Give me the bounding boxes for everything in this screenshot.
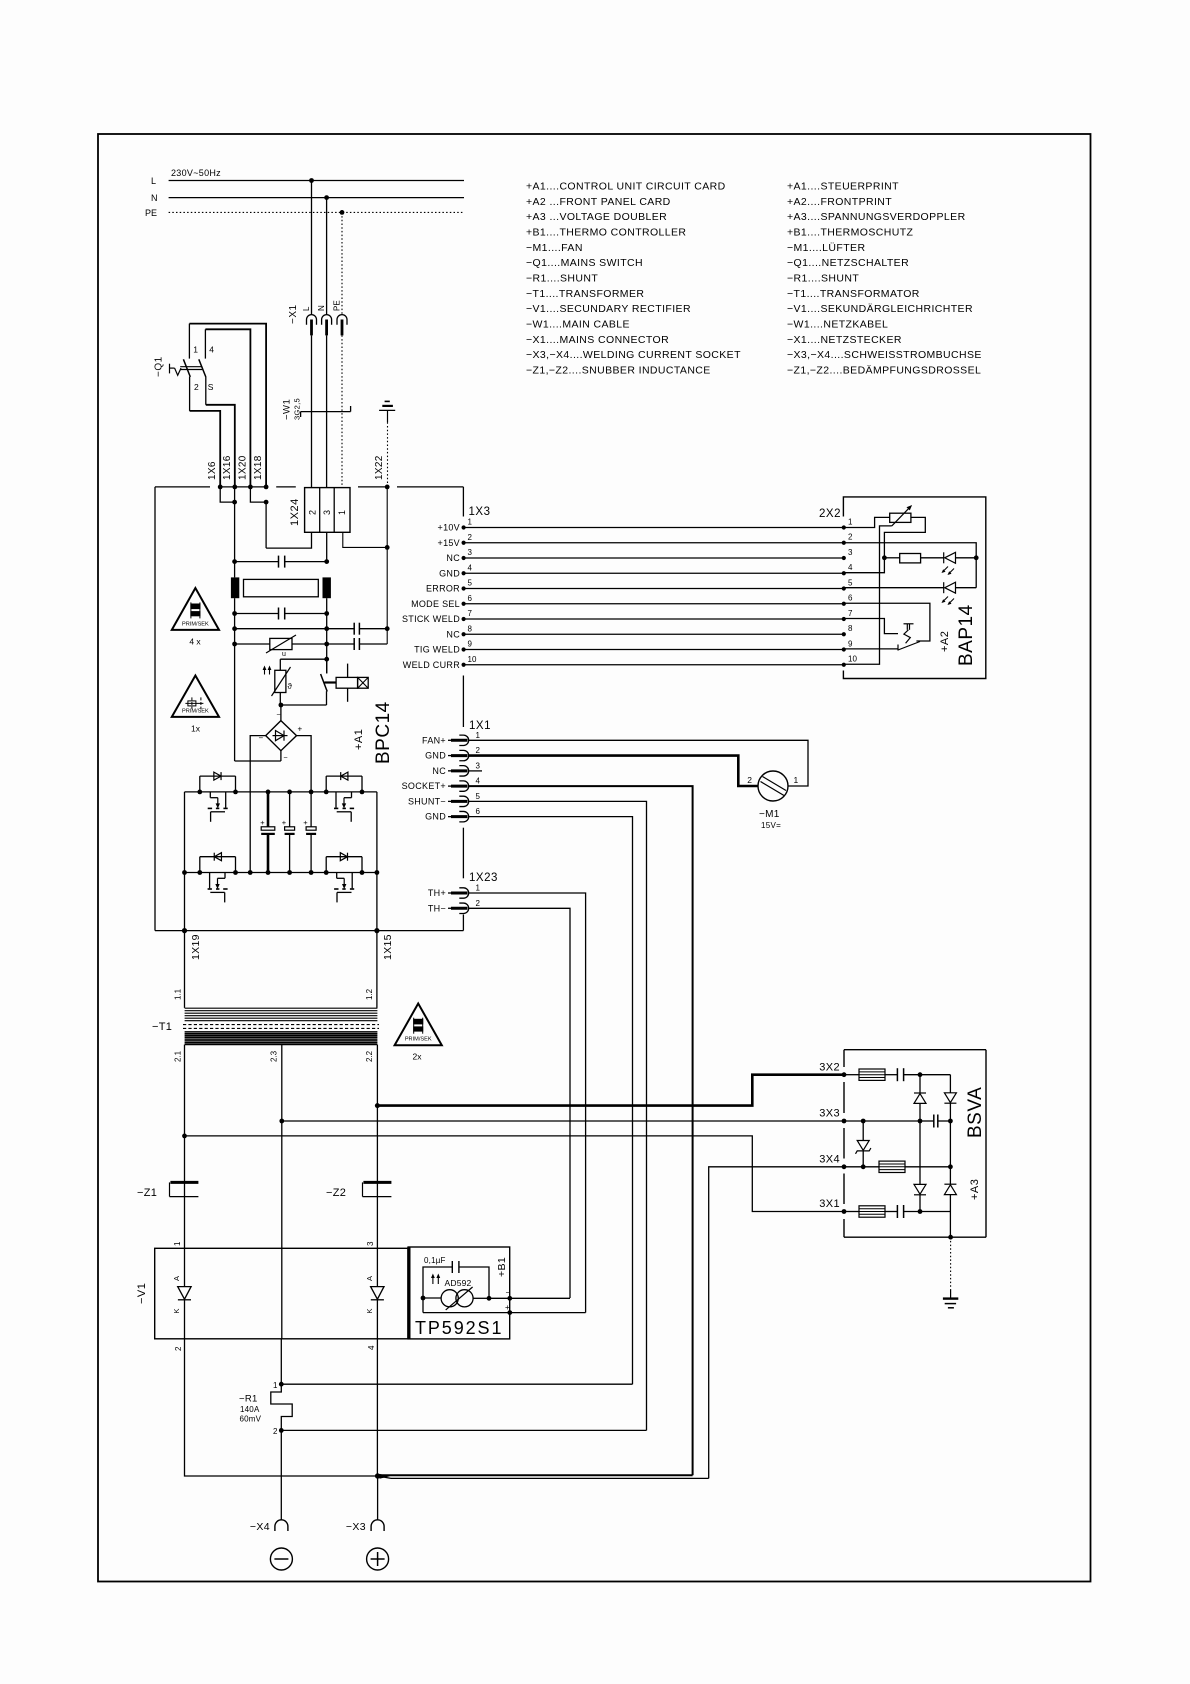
1X3 pin 1 (+10V) bbox=[462, 525, 466, 529]
diode V1b bbox=[376, 1248, 378, 1286]
capacitor Y-cap 2 (to PE) bbox=[327, 643, 355, 645]
svg-text:−Z2: −Z2 bbox=[326, 1187, 346, 1199]
wire B1 plus to TH+ bbox=[510, 1312, 586, 1314]
svg-text:−: − bbox=[259, 734, 264, 743]
wire 1X24.3 down (N filter column) bbox=[326, 532, 328, 561]
Q1 mechanical link (double bar) bbox=[180, 366, 202, 368]
1X3 pin 5 (ERROR) bbox=[462, 586, 466, 590]
svg-text:−M1: −M1 bbox=[759, 809, 780, 820]
wire Q1.1 to 1X18 bbox=[189, 324, 266, 487]
wire 2X2.1 to potentiometer bbox=[844, 517, 890, 527]
connector 1X6 bbox=[218, 485, 223, 490]
wire V1 minus leg to X4 bbox=[280, 1430, 282, 1519]
2X2 pin 10 bbox=[842, 663, 846, 667]
wire bridge plus to positive rail bbox=[297, 736, 312, 792]
svg-text:1x: 1x bbox=[191, 723, 201, 733]
svg-text:1X24: 1X24 bbox=[289, 498, 301, 526]
wire 1X3.7 to 2X2.7 bbox=[464, 618, 844, 620]
svg-text:1: 1 bbox=[173, 1241, 182, 1246]
svg-text:1: 1 bbox=[848, 517, 853, 526]
wire SHUNT- (1X1.5) down to R1.2 bbox=[469, 801, 647, 1430]
svg-text:1X22: 1X22 bbox=[374, 455, 385, 480]
inductor (3X2 branch) bbox=[844, 1074, 859, 1076]
LED 2 bbox=[844, 587, 944, 589]
svg-text:3: 3 bbox=[468, 548, 473, 557]
svg-text:0,1µF: 0,1µF bbox=[424, 1256, 446, 1265]
1X3 pin 10 (WELD CURR) bbox=[462, 663, 466, 667]
svg-text:AD592: AD592 bbox=[445, 1278, 472, 1288]
B1 plus output pin bbox=[422, 1298, 424, 1313]
wire TH- (1X23.2) down to B1 minus bbox=[469, 908, 570, 1298]
svg-text:4: 4 bbox=[367, 1345, 376, 1350]
wire 1X3.6 to 2X2.6 bbox=[464, 603, 844, 605]
svg-text:−X1....NETZSTECKER: −X1....NETZSTECKER bbox=[787, 334, 902, 346]
2X2 pin 4 bbox=[842, 571, 846, 575]
Q1 pole A contact bbox=[188, 324, 190, 359]
svg-text:2: 2 bbox=[273, 1427, 278, 1436]
diode (lower left, doubler) bbox=[914, 1184, 926, 1194]
varistor u bbox=[232, 642, 237, 647]
wire 1X1.1 to fan pin1 bbox=[469, 740, 808, 786]
svg-text:N: N bbox=[151, 193, 158, 203]
svg-text:−X3,−X4....WELDING CURRENT SOC: −X3,−X4....WELDING CURRENT SOCKET bbox=[526, 349, 741, 361]
svg-text:9: 9 bbox=[468, 640, 473, 649]
transistor Q (bottom-right MOSFET + diode) bbox=[325, 857, 327, 873]
svg-text:BSVA: BSVA bbox=[965, 1087, 986, 1138]
svg-text:2.1: 2.1 bbox=[174, 1050, 183, 1062]
wire V1 plus bus bbox=[185, 1339, 378, 1476]
svg-text:2: 2 bbox=[476, 746, 481, 755]
wire left leg to T1 pin 1.1 (via 1X19) bbox=[184, 792, 186, 1008]
svg-text:SOCKET+: SOCKET+ bbox=[402, 781, 446, 791]
svg-text:1X18: 1X18 bbox=[253, 455, 264, 480]
svg-text:+A3 ...VOLTAGE DOUBLER: +A3 ...VOLTAGE DOUBLER bbox=[526, 211, 667, 223]
svg-text:4: 4 bbox=[209, 345, 214, 355]
wire 1X24.2 to 1X18 column bbox=[266, 532, 311, 548]
svg-text:+A2 ...FRONT PANEL CARD: +A2 ...FRONT PANEL CARD bbox=[526, 196, 671, 208]
wire 1X24.1 to PE node bbox=[343, 532, 387, 547]
svg-text:−W1: −W1 bbox=[282, 399, 293, 420]
node 2.3 to 3X3 bbox=[279, 1119, 284, 1124]
svg-text:GND: GND bbox=[439, 568, 460, 578]
1X3 pin 2 (+15V) bbox=[462, 541, 466, 545]
svg-text:BAP14: BAP14 bbox=[956, 604, 977, 666]
svg-text:6: 6 bbox=[848, 594, 853, 603]
svg-text:2: 2 bbox=[174, 1346, 183, 1351]
svg-text:−V1....SECUNDARY RECTIFIER: −V1....SECUNDARY RECTIFIER bbox=[526, 303, 691, 315]
svg-text:3X3: 3X3 bbox=[819, 1108, 840, 1120]
diode (upper left, doubler) bbox=[919, 1075, 921, 1093]
connector 3X4 bbox=[842, 1164, 847, 1169]
transistor Q (top-left MOSFET + diode) bbox=[199, 776, 201, 792]
node 2.2 to 3X2 (thick) bbox=[375, 1103, 380, 1108]
svg-text:−M1....FAN: −M1....FAN bbox=[526, 242, 583, 254]
svg-text:NC: NC bbox=[432, 766, 446, 776]
wire 3X4 row bbox=[861, 1164, 866, 1169]
wire 1X20 join 1X18 bbox=[250, 487, 266, 502]
svg-text:4: 4 bbox=[848, 563, 853, 572]
svg-text:+A1....CONTROL UNIT CIRCUIT CA: +A1....CONTROL UNIT CIRCUIT CARD bbox=[526, 181, 726, 193]
wire negative rail bbox=[185, 872, 377, 874]
svg-text:60mV: 60mV bbox=[240, 1414, 262, 1423]
node 2.1 to 3X1 bbox=[182, 1134, 187, 1139]
svg-text:STICK WELD: STICK WELD bbox=[402, 614, 460, 624]
svg-text:1X19: 1X19 bbox=[190, 934, 202, 960]
wire 1X3.10 to 2X2.10 bbox=[464, 664, 844, 666]
svg-text:−Q1....NETZSCHALTER: −Q1....NETZSCHALTER bbox=[787, 257, 909, 269]
connector 1X16 bbox=[232, 485, 237, 490]
wire R1.2 to SHUNT- line bbox=[281, 1429, 646, 1431]
wire L drop to X1 bbox=[309, 178, 314, 183]
svg-text:−: − bbox=[506, 1288, 511, 1297]
svg-text:L: L bbox=[302, 306, 311, 311]
LED2 light arrows bbox=[943, 597, 948, 602]
svg-text:+: + bbox=[303, 818, 308, 827]
warning triangle PRIM/SEK 4x bbox=[172, 588, 219, 630]
svg-text:TIG WELD: TIG WELD bbox=[414, 645, 460, 655]
svg-text:1X20: 1X20 bbox=[238, 455, 249, 480]
svg-text:−V1....SEKUNDÄRGLEICHRICHTER: −V1....SEKUNDÄRGLEICHRICHTER bbox=[787, 303, 973, 315]
svg-text:−W1....MAIN CABLE: −W1....MAIN CABLE bbox=[526, 319, 630, 331]
svg-text:+10V: +10V bbox=[438, 523, 460, 533]
svg-text:−X3: −X3 bbox=[346, 1521, 366, 1533]
svg-text:5: 5 bbox=[476, 792, 481, 801]
svg-text:15V=: 15V= bbox=[761, 821, 781, 830]
wire T1 2.1 down bbox=[184, 1045, 186, 1249]
transistor Q (top-right MOSFET + diode) bbox=[325, 776, 327, 792]
wire B1 minus to TH- bbox=[510, 1297, 570, 1299]
shunt R1 140A 60mV bbox=[280, 1339, 282, 1384]
svg-text:+A2: +A2 bbox=[939, 631, 951, 652]
svg-text:K: K bbox=[172, 1308, 181, 1313]
svg-text:+A1: +A1 bbox=[353, 729, 365, 750]
svg-text:10: 10 bbox=[468, 655, 477, 664]
svg-text:7: 7 bbox=[848, 609, 853, 618]
wire T1 2.3 down (center tap) bbox=[281, 1045, 283, 1249]
1X3 pin 4 (GND) bbox=[462, 571, 466, 575]
fan M1 bbox=[758, 771, 788, 801]
Q1 thermal trip element bbox=[169, 364, 171, 374]
svg-text:WELD CURR: WELD CURR bbox=[403, 660, 460, 670]
svg-text:2: 2 bbox=[194, 382, 199, 392]
2X2 pin 5 bbox=[842, 586, 846, 590]
svg-text:+15V: +15V bbox=[438, 538, 460, 548]
relay coil K1 bbox=[324, 681, 336, 683]
connector 3X2 bbox=[842, 1072, 847, 1077]
svg-text:A: A bbox=[172, 1276, 181, 1281]
svg-text:1X1: 1X1 bbox=[469, 720, 491, 732]
wire PE drop to X1 (dotted) bbox=[340, 210, 345, 215]
wire T1 2.2 down bbox=[376, 1045, 378, 1249]
svg-text:1: 1 bbox=[468, 518, 473, 527]
svg-text:TP592S1: TP592S1 bbox=[415, 1318, 503, 1338]
LED1 light arrows bbox=[943, 567, 948, 572]
wire potentiometer to resistor node bbox=[844, 517, 926, 572]
svg-text:5: 5 bbox=[848, 578, 853, 587]
T1 core (dashed) bbox=[183, 1024, 379, 1026]
svg-text:N: N bbox=[317, 305, 326, 311]
2X2 pin 3 bbox=[842, 556, 846, 560]
wire filter column A (from 1X16) bbox=[234, 487, 236, 578]
earth symbol (chassis, above 1X22) bbox=[379, 409, 395, 411]
svg-text:10: 10 bbox=[848, 655, 857, 664]
zener diode (clamp) bbox=[861, 1119, 866, 1124]
svg-text:−Z1: −Z1 bbox=[137, 1187, 157, 1199]
svg-text:4 x: 4 x bbox=[189, 636, 201, 646]
svg-text:1X23: 1X23 bbox=[469, 872, 498, 884]
svg-text:3: 3 bbox=[322, 510, 332, 515]
svg-text:GND: GND bbox=[425, 812, 446, 822]
earth symbol (BSVA chassis) bbox=[948, 1235, 953, 1240]
node output junction (+) bbox=[375, 1473, 380, 1478]
wire 1X3.3 to 2X2.3 bbox=[464, 557, 844, 559]
board A2 BAP14 outline bbox=[843, 497, 985, 679]
inductor common-mode choke bbox=[231, 577, 239, 598]
svg-text:−X4: −X4 bbox=[250, 1521, 270, 1533]
svg-text:PRIM/SEK: PRIM/SEK bbox=[182, 621, 209, 627]
svg-text:PRIM/SEK: PRIM/SEK bbox=[405, 1037, 432, 1043]
wire 1X1.3 stub (NC) bbox=[469, 770, 482, 772]
svg-text:1: 1 bbox=[337, 510, 347, 515]
NTC temperature arrows bbox=[264, 668, 266, 675]
svg-text:+: + bbox=[260, 818, 265, 827]
wire Q1.4 to 1X20 bbox=[205, 329, 250, 487]
svg-text:8: 8 bbox=[848, 624, 853, 633]
wire 1X6 join 1X16 bbox=[220, 487, 234, 502]
svg-text:7: 7 bbox=[468, 609, 473, 618]
border frame bbox=[98, 134, 1091, 1582]
svg-text:1X16: 1X16 bbox=[222, 455, 233, 480]
capacitor Y-cap 1 (to PE) bbox=[232, 626, 237, 631]
wire 1X1.2 (GND) to fan pin2 (thick) bbox=[469, 756, 758, 786]
svg-text:2: 2 bbox=[468, 533, 473, 542]
svg-text:1: 1 bbox=[476, 731, 481, 740]
svg-text:ERROR: ERROR bbox=[426, 584, 460, 594]
LED 1 bbox=[921, 557, 944, 559]
capacitor C3 (bus electrolytic) bbox=[309, 790, 314, 795]
warning triangle PRIM/SEK 1x bbox=[172, 676, 219, 717]
wire R1.1 to GND line bbox=[281, 1383, 632, 1385]
capacitor X-cap 2 bbox=[232, 611, 237, 616]
svg-text:2: 2 bbox=[747, 775, 752, 785]
wire N drop to X1 bbox=[324, 195, 329, 200]
resistor (LED series) bbox=[900, 554, 921, 563]
inductor (3X1 branch) bbox=[844, 1211, 859, 1213]
svg-text:−T1....TRANSFORMATOR: −T1....TRANSFORMATOR bbox=[787, 288, 920, 300]
2X2 pin 9 bbox=[842, 647, 846, 651]
2X2 pin 6 bbox=[842, 602, 846, 606]
svg-text:2: 2 bbox=[308, 510, 318, 515]
capacitor C2 (bus electrolytic) bbox=[287, 790, 292, 795]
thermo controller B1 TP592S1 box bbox=[408, 1247, 510, 1339]
wire 2X2.2 to LED cathode rail bbox=[844, 543, 976, 588]
svg-text:~: ~ bbox=[284, 755, 288, 762]
svg-text:−X3,−X4....SCHWEISSTROMBUCHSE: −X3,−X4....SCHWEISSTROMBUCHSE bbox=[787, 349, 982, 361]
wire SOCKET+ (1X1.4) down to output junction bbox=[469, 786, 693, 1475]
svg-text:−X1: −X1 bbox=[288, 304, 299, 324]
diode V1a bbox=[184, 1248, 186, 1286]
rectifier V1 box bbox=[155, 1248, 408, 1339]
potentiometer (weld current set) bbox=[890, 513, 911, 522]
1X3 pin 3 (NC) bbox=[462, 556, 466, 560]
wire V1 pin4 to output junction bbox=[376, 1339, 378, 1476]
svg-text:5: 5 bbox=[468, 579, 473, 588]
svg-text:3: 3 bbox=[476, 761, 481, 770]
mode switch (panel) bbox=[844, 603, 930, 641]
capacitor (3X2 branch) bbox=[885, 1074, 897, 1076]
svg-text:SHUNT−: SHUNT− bbox=[408, 796, 446, 806]
svg-text:+A2....FRONTPRINT: +A2....FRONTPRINT bbox=[787, 196, 892, 208]
svg-text:−X1....MAINS CONNECTOR: −X1....MAINS CONNECTOR bbox=[526, 334, 669, 346]
svg-text:1X3: 1X3 bbox=[469, 506, 491, 518]
svg-text:MODE SEL: MODE SEL bbox=[411, 599, 460, 609]
svg-text:−R1: −R1 bbox=[239, 1394, 258, 1405]
svg-text:3X1: 3X1 bbox=[819, 1198, 840, 1210]
inductor (3X4 branch) bbox=[879, 1161, 905, 1172]
svg-text:−Z1,−Z2....SNUBBER INDUCTANCE: −Z1,−Z2....SNUBBER INDUCTANCE bbox=[526, 365, 711, 377]
wire Q1.2 to 1X6 bbox=[190, 411, 221, 487]
svg-text:1X15: 1X15 bbox=[382, 934, 394, 960]
1X3 pin 6 (MODE SEL) bbox=[462, 602, 466, 606]
relay contact (bypass) bbox=[326, 659, 328, 673]
bridge rectifier (aux supply) bbox=[280, 705, 282, 721]
svg-text:−Q1: −Q1 bbox=[154, 356, 165, 377]
svg-text:4: 4 bbox=[468, 563, 473, 572]
svg-text:2x: 2x bbox=[413, 1052, 423, 1062]
svg-text:8: 8 bbox=[468, 624, 473, 633]
svg-text:−T1....TRANSFORMER: −T1....TRANSFORMER bbox=[526, 288, 644, 300]
polarity plus symbol bbox=[367, 1548, 389, 1570]
svg-text:−R1....SHUNT: −R1....SHUNT bbox=[787, 273, 859, 285]
svg-text:−M1....LÜFTER: −M1....LÜFTER bbox=[787, 242, 865, 254]
board A1 BPC14 outline bbox=[155, 486, 210, 488]
warning triangle PRIM/SEK 2x bbox=[395, 1004, 442, 1046]
2X2 pin 7 bbox=[842, 617, 846, 621]
svg-text:A: A bbox=[365, 1276, 374, 1281]
svg-text:GND: GND bbox=[425, 751, 446, 761]
wire 1X3.9 to 2X2.9 bbox=[464, 649, 844, 651]
svg-text:6: 6 bbox=[468, 594, 473, 603]
svg-text:1.2: 1.2 bbox=[365, 988, 374, 1000]
svg-text:+A3: +A3 bbox=[969, 1179, 981, 1200]
svg-text:~: ~ bbox=[277, 712, 281, 719]
svg-text:3X4: 3X4 bbox=[819, 1154, 840, 1166]
svg-text:+A3....SPANNUNGSVERDOPPLER: +A3....SPANNUNGSVERDOPPLER bbox=[787, 211, 966, 223]
svg-text:L: L bbox=[151, 176, 156, 186]
svg-text:2.3: 2.3 bbox=[270, 1050, 279, 1062]
wire 1X3.2 to 2X2.2 bbox=[464, 542, 844, 544]
svg-text:S: S bbox=[208, 382, 214, 392]
svg-text:6: 6 bbox=[476, 807, 481, 816]
svg-text:−T1: −T1 bbox=[152, 1021, 172, 1033]
2X2 pin 1 bbox=[842, 525, 846, 529]
connector 3X1 bbox=[842, 1209, 847, 1214]
svg-text:2X2: 2X2 bbox=[819, 508, 841, 520]
svg-text:1: 1 bbox=[193, 345, 198, 355]
svg-text:PRIM/SEK: PRIM/SEK bbox=[182, 708, 209, 714]
wire Q1.S to 1X16 bbox=[206, 405, 235, 487]
wire pot wiper to 2X2.10 bbox=[844, 526, 892, 664]
svg-text:NC: NC bbox=[446, 553, 460, 563]
svg-text:1: 1 bbox=[476, 884, 481, 893]
capacitor X-cap 1 bbox=[232, 559, 237, 564]
svg-text:3X2: 3X2 bbox=[819, 1062, 840, 1074]
svg-text:9: 9 bbox=[848, 639, 853, 648]
svg-text:−Z1,−Z2....BEDÄMPFUNGSDROSSEL: −Z1,−Z2....BEDÄMPFUNGSDROSSEL bbox=[787, 365, 981, 377]
capacitor (3X1 branch) bbox=[885, 1211, 897, 1213]
svg-text:TH−: TH− bbox=[428, 903, 446, 913]
wire 3X4 to output junction bbox=[709, 1167, 844, 1479]
T1 primary winding bbox=[185, 1007, 378, 1009]
svg-text:FAN+: FAN+ bbox=[422, 735, 446, 745]
wire bridge minus to negative rail bbox=[250, 736, 266, 873]
wire 1X3.4 to 2X2.4 bbox=[464, 572, 844, 574]
svg-text:2.2: 2.2 bbox=[365, 1050, 374, 1062]
connector 1X22 bbox=[385, 485, 390, 490]
svg-text:TH+: TH+ bbox=[428, 888, 446, 898]
wire bridge ~ bottom to filter column A bbox=[280, 751, 282, 761]
capacitor C1 (bus electrolytic) bbox=[266, 790, 271, 795]
svg-text:+A1....STEUERPRINT: +A1....STEUERPRINT bbox=[787, 181, 899, 193]
wire PE vertical from 1X22 to Y-caps bbox=[386, 487, 388, 644]
T1 secondary winding bbox=[185, 1031, 378, 1033]
connector 1X20 bbox=[248, 485, 253, 490]
svg-text:−V1: −V1 bbox=[136, 1283, 148, 1304]
capacitor (3X3 row) bbox=[844, 1120, 920, 1122]
svg-text:1: 1 bbox=[794, 775, 799, 785]
svg-text:+B1....THERMO CONTROLLER: +B1....THERMO CONTROLLER bbox=[526, 227, 686, 239]
svg-text:BPC14: BPC14 bbox=[373, 701, 394, 764]
svg-text:NC: NC bbox=[446, 629, 460, 639]
1X3 pin 8 (NC) bbox=[462, 632, 466, 636]
polarity minus symbol bbox=[270, 1548, 292, 1570]
1X3 pin 9 (TIG WELD) bbox=[462, 647, 466, 651]
wire right leg to T1 pin 1.2 (via 1X15) bbox=[376, 792, 378, 1008]
transistor Q (bottom-left MOSFET + diode) bbox=[199, 857, 201, 873]
svg-text:2: 2 bbox=[848, 533, 853, 542]
svg-text:+B1: +B1 bbox=[496, 1257, 508, 1277]
svg-text:PE: PE bbox=[145, 208, 157, 218]
svg-text:3: 3 bbox=[366, 1241, 375, 1246]
svg-text:−R1....SHUNT: −R1....SHUNT bbox=[526, 273, 598, 285]
wire 1X3.8 to 2X2.8 bbox=[464, 633, 844, 635]
svg-text:3: 3 bbox=[848, 548, 853, 557]
svg-text:u: u bbox=[282, 651, 286, 658]
wire TH+ (1X23.1) down to B1 plus bbox=[469, 893, 586, 1313]
svg-text:+: + bbox=[298, 725, 303, 734]
svg-text:1X6: 1X6 bbox=[207, 461, 218, 480]
2X2 pin 8 bbox=[842, 632, 846, 636]
svg-text:140A: 140A bbox=[240, 1405, 260, 1414]
diode (lower right, doubler) bbox=[949, 1167, 951, 1184]
svg-text:K: K bbox=[365, 1308, 374, 1313]
svg-text:−Q1....MAINS SWITCH: −Q1....MAINS SWITCH bbox=[526, 257, 643, 269]
connector 3X3 bbox=[842, 1119, 847, 1124]
thermistor NTC (inrush limiter) bbox=[280, 658, 326, 660]
connector 1X19 bbox=[182, 928, 187, 933]
svg-text:4: 4 bbox=[476, 777, 481, 786]
wire positive rail bbox=[185, 791, 377, 793]
svg-text:1: 1 bbox=[273, 1381, 278, 1390]
2X2 pin 2 bbox=[842, 541, 846, 545]
board A3 BSVA outline bbox=[844, 1049, 986, 1051]
wire 2.3 through V1 bbox=[281, 1248, 283, 1339]
diode (upper right, doubler) bbox=[949, 1075, 951, 1093]
svg-text:−W1....NETZKABEL: −W1....NETZKABEL bbox=[787, 319, 888, 331]
wire 1X3.1 to 2X2.1 bbox=[464, 527, 844, 529]
Q1 pole B contact bbox=[204, 329, 206, 358]
svg-text:230V~50Hz: 230V~50Hz bbox=[171, 168, 221, 178]
